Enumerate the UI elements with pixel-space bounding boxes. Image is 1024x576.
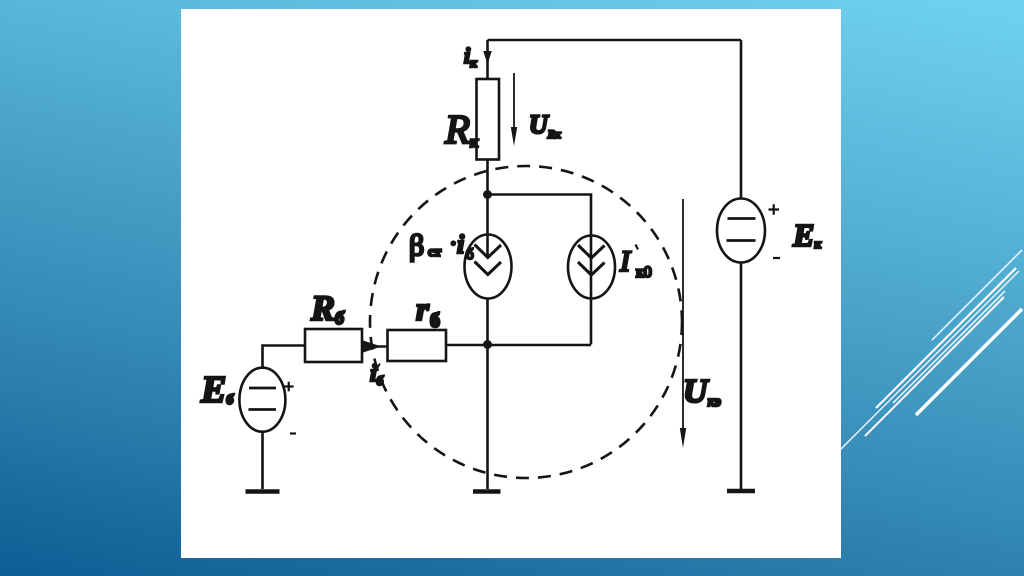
plus sign E_b xyxy=(284,382,294,392)
wire base rail node B xyxy=(446,344,591,347)
source E_b bar 1 xyxy=(249,387,276,390)
prime mark on I xyxy=(636,245,639,250)
source E_b bar 2 xyxy=(249,408,277,411)
plus sign E_k xyxy=(769,204,780,214)
wire collector drop xyxy=(486,40,489,79)
ground E_b xyxy=(246,489,280,494)
wire U1 to node B xyxy=(486,299,489,345)
current source U1 chevron 2 xyxy=(475,262,502,275)
ground emitter xyxy=(473,489,501,494)
current source U2 chevron 1 xyxy=(578,245,605,258)
ground E_k xyxy=(727,489,755,494)
source E_k bar 2 xyxy=(727,239,756,242)
minus sign E_b xyxy=(290,432,296,434)
wire right rail upper xyxy=(740,40,743,199)
source E_b ellipse xyxy=(239,368,285,432)
resistor r_b xyxy=(388,330,447,361)
svg-text:Uкэ: Uкэ xyxy=(683,373,721,410)
prime mark on i_b xyxy=(376,364,381,372)
voltage arrow U_ke xyxy=(682,199,684,430)
svg-text:URк: URк xyxy=(529,110,561,141)
svg-text:·: · xyxy=(450,233,457,255)
voltage arrow U_Rk xyxy=(513,73,515,130)
svg-text:i: i xyxy=(457,230,465,259)
wire emitter drop xyxy=(486,345,489,490)
resistor R_b xyxy=(305,329,362,362)
node A junction dot xyxy=(483,190,492,199)
svg-text:Eк: Eк xyxy=(792,217,821,253)
current source U2 chevron 2 xyxy=(578,262,605,275)
svg-text:б: б xyxy=(430,310,440,332)
wire collector to node A xyxy=(486,160,489,236)
source E_k ellipse xyxy=(717,199,765,263)
current source U2 I_k0 ellipse xyxy=(568,236,615,299)
transistor boundary dashed circle xyxy=(370,166,682,478)
wire between R_b and r_b xyxy=(362,345,388,348)
wire top collector rail xyxy=(488,39,742,42)
svg-text:Eб: Eб xyxy=(200,369,234,411)
white schematic panel xyxy=(181,9,841,558)
current source U1 beta*ib ellipse xyxy=(465,235,512,299)
source E_k bar 1 xyxy=(728,217,756,220)
svg-text:r: r xyxy=(416,292,430,328)
current source U1 inner wire stub xyxy=(486,235,489,258)
svg-text:Rб: Rб xyxy=(310,288,345,328)
wire E_b to R_b xyxy=(263,346,306,369)
svg-text:к0: к0 xyxy=(636,264,652,281)
svg-text:Rк: Rк xyxy=(444,106,479,152)
svg-text:ст: ст xyxy=(428,245,441,260)
wire right rail lower xyxy=(740,263,743,490)
svg-text:iк: iк xyxy=(464,43,477,70)
current source U1 chevron 1 xyxy=(475,245,502,258)
svg-text:I: I xyxy=(619,245,632,278)
minus sign E_k xyxy=(773,257,780,259)
svg-text:β: β xyxy=(409,229,424,262)
current arrow i_b xyxy=(363,341,382,353)
current arrow i_k xyxy=(483,51,492,64)
resistor R_k xyxy=(477,79,500,160)
wire E_b bottom xyxy=(261,432,264,490)
wire node A to I_k0 branch xyxy=(488,195,592,345)
node B junction dot xyxy=(483,340,492,349)
